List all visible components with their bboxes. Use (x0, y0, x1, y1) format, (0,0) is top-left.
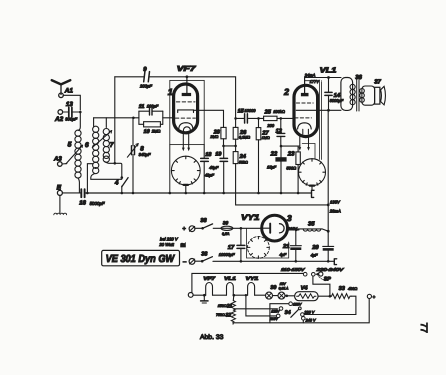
wire shield to chassis (169, 145, 172, 195)
barretter V4 (295, 292, 319, 301)
svg-text:11: 11 (139, 104, 145, 110)
heater VF7 (183, 127, 190, 134)
terminal 220-240V a (312, 273, 316, 277)
wire C12 node to cathode VL1 (280, 145, 300, 148)
resistor R24 (233, 146, 238, 164)
capacitor C21 electrolytic (290, 230, 301, 263)
svg-text:19: 19 (215, 152, 221, 158)
svg-text:23: 23 (287, 150, 295, 157)
wire heater feed to 110-150V terminal (192, 273, 304, 292)
svg-text:200pF: 200pF (139, 83, 152, 88)
svg-text:10: 10 (144, 129, 150, 135)
svg-text:10000: 10000 (244, 108, 256, 113)
anode plate VF7 (178, 110, 194, 113)
svg-text:≅: ≅ (180, 240, 186, 249)
svg-text:18: 18 (205, 152, 211, 158)
svg-text:110-150V: 110-150V (281, 267, 306, 272)
coupling arrow through coils 6-7 (92, 131, 111, 148)
svg-text:6: 6 (85, 142, 89, 149)
selector arm 34 (291, 307, 301, 317)
terminal 150V (289, 302, 293, 306)
lamp 39b (278, 292, 285, 299)
capacitor C12 (277, 118, 285, 146)
shield box around VF7 (170, 80, 204, 144)
terminal 125V (279, 307, 283, 311)
wire V4 to R33 (318, 295, 331, 298)
capacitor C14 (325, 78, 332, 112)
capacitor C19 (220, 147, 227, 194)
svg-text:1: 1 (168, 87, 173, 97)
svg-text:100pF: 100pF (147, 104, 159, 109)
grid dashes VF7 lower (175, 117, 195, 119)
wire lamps (273, 295, 279, 297)
svg-text:16: 16 (79, 200, 86, 207)
wire R28 to node (222, 139, 237, 147)
socket VL1 (299, 159, 326, 186)
wire R24 to HT rail (236, 164, 329, 205)
svg-text:31: 31 (227, 304, 233, 310)
terminal 240V (302, 317, 306, 321)
svg-text:VY1: VY1 (241, 213, 260, 222)
svg-text:3: 3 (287, 213, 292, 223)
fuse F30 (221, 226, 233, 230)
terminal A3 (58, 162, 63, 167)
wire fuse to VY1 (233, 227, 262, 230)
terminal 220-240V b (319, 272, 323, 276)
svg-text:38: 38 (200, 218, 207, 224)
svg-text:340pF: 340pF (139, 152, 151, 157)
lead arrows VL1 to socket (298, 129, 310, 151)
capacitor C22 electrolytic (275, 146, 286, 194)
capacitor C11 (139, 108, 163, 116)
resistor R28 (221, 127, 226, 138)
wire top rail left drop (114, 77, 117, 165)
cathode VL1 (298, 123, 312, 129)
transformer core (357, 79, 359, 111)
resistor R33 (332, 294, 352, 299)
wire top rail (115, 75, 237, 119)
svg-text:39: 39 (270, 285, 276, 291)
svg-text:37: 37 (374, 79, 381, 86)
resistor R32 (231, 310, 235, 324)
svg-text:240 V: 240 V (305, 318, 316, 322)
guide lines VL1 socket (302, 144, 315, 159)
svg-text:38: 38 (201, 252, 208, 258)
svg-text:20 Watt: 20 Watt (158, 242, 174, 247)
node RC left (138, 111, 140, 124)
tube V3 VY1 (262, 215, 288, 241)
terminal 220V (301, 313, 305, 317)
wire VY1 cathode out (288, 229, 300, 232)
grid dashes VF7 upper (176, 101, 195, 103)
grid dashes VL1 lower (control grid) (295, 117, 312, 119)
svg-text:21: 21 (282, 243, 289, 250)
transformer T36 secondary (360, 86, 375, 105)
svg-text:32: 32 (225, 313, 231, 319)
chassis bracket right (312, 190, 315, 197)
svg-text:A3: A3 (53, 155, 62, 162)
wire coil5 bottom to C16 (78, 178, 79, 193)
socket VF7 (171, 156, 200, 185)
svg-text:50kΩ: 50kΩ (239, 160, 248, 164)
svg-text:22: 22 (270, 150, 278, 157)
svg-text:220-240V: 220-240V (315, 267, 345, 272)
mains minus bus (213, 260, 334, 262)
resistor R25 (259, 116, 295, 120)
resistor R35 (297, 229, 330, 233)
svg-text:1MΩ: 1MΩ (262, 136, 270, 140)
svg-text:33: 33 (339, 286, 346, 292)
wire R33 to 220V tap (304, 296, 356, 314)
svg-text:VF7: VF7 (203, 276, 215, 282)
svg-text:E: E (57, 184, 62, 191)
svg-text:45pF: 45pF (209, 165, 219, 170)
svg-text:VF7: VF7 (177, 64, 197, 73)
wire A3 tap arrow onto coil 5 (62, 145, 83, 164)
terminal E (57, 190, 62, 195)
grid top-cap of VF7 (182, 77, 191, 96)
wire RC to VF7 grid (163, 117, 174, 119)
HT vertical 195V (327, 110, 330, 231)
svg-text:750Ω: 750Ω (216, 313, 225, 317)
wire coil6 bottom to switch (91, 174, 122, 180)
tube V2 VL1 envelope (294, 85, 318, 136)
transformer T36 primary (341, 78, 355, 111)
svg-text:bei 220 V: bei 220 V (160, 237, 179, 242)
wire grid VL1 from R25 node (293, 117, 295, 119)
wire 110V tap (245, 294, 277, 316)
VY1 socket mounting box (247, 229, 289, 258)
svg-text:VE 301 Dyn GW: VE 301 Dyn GW (106, 254, 176, 265)
wire socket VL1 to chassis bracket (311, 186, 313, 191)
svg-text:12: 12 (276, 129, 283, 135)
bottom selector wire to plus terminal (233, 299, 370, 323)
wire coil7 bottom to switch 4 (105, 162, 122, 178)
capacitor C16 (62, 189, 84, 197)
svg-text:25: 25 (264, 110, 272, 116)
heater VL1 loop (227, 283, 234, 296)
svg-text:400Ω: 400Ω (348, 287, 357, 291)
wire 220V input down to V4 node (313, 276, 330, 295)
svg-text:500Ω: 500Ω (286, 165, 296, 170)
svg-text:100kΩ: 100kΩ (273, 109, 285, 114)
grid dashes VL1 upper (296, 102, 313, 104)
svg-text:29mA: 29mA (329, 209, 341, 214)
lead arrows VF7 to socket (182, 134, 190, 152)
coil L6 (93, 118, 99, 174)
socket VY1 (248, 237, 270, 259)
heater VY1 loop (248, 283, 255, 296)
terminal A1 (59, 93, 64, 98)
svg-text:+: + (182, 227, 186, 233)
svg-text:4: 4 (114, 180, 119, 187)
svg-text:150V: 150V (293, 303, 302, 307)
svg-text:SP: SP (324, 276, 332, 282)
switch S38a (195, 224, 221, 230)
svg-text:110V: 110V (270, 317, 279, 321)
resistor R31 (231, 294, 235, 310)
svg-text:125V: 125V (271, 310, 280, 314)
svg-text:VY1: VY1 (246, 276, 259, 282)
svg-text:20: 20 (311, 244, 319, 251)
svg-text:V4: V4 (301, 285, 309, 291)
svg-text:24: 24 (239, 154, 247, 160)
svg-text:17: 17 (228, 245, 235, 251)
capacitor C9 (144, 72, 150, 82)
wire socket VF7 to chassis (185, 185, 188, 194)
chassis bracket bottom (334, 259, 336, 265)
capacitor C17 (237, 228, 245, 262)
wire anode VL1 to transformer (305, 76, 341, 79)
svg-text:VL1: VL1 (224, 276, 236, 282)
heater terminal (188, 293, 193, 298)
svg-text:0,5A: 0,5A (222, 232, 230, 236)
svg-text:2: 2 (283, 87, 289, 97)
terminal plug plus (189, 226, 195, 232)
speaker 37 (375, 86, 386, 105)
capacitor C8 variable (127, 118, 138, 193)
wire 125V tap (234, 308, 277, 310)
cathode VF7 (179, 123, 193, 129)
heater VF7 loop (206, 283, 213, 296)
resistor R26 (233, 118, 238, 145)
svg-text:30: 30 (223, 221, 229, 227)
anode top-cap VL1 (301, 78, 309, 97)
svg-text:13: 13 (66, 101, 73, 108)
svg-text:−: − (183, 259, 187, 266)
wire coil tops bus y117.7 (94, 117, 139, 120)
terminal plug minus (189, 259, 195, 265)
svg-text:34: 34 (285, 310, 291, 316)
heater wire (193, 294, 265, 296)
svg-text:VL1: VL1 (320, 66, 337, 75)
wire VF7 anode out (194, 110, 224, 127)
capacitor C13 (69, 107, 72, 116)
svg-text:150Ω: 150Ω (218, 304, 227, 308)
svg-text:220 V: 220 V (303, 310, 314, 314)
wire coil6 tap to chassis (87, 164, 92, 193)
wire 240V to bottom (302, 320, 304, 323)
svg-text:195V: 195V (330, 200, 341, 205)
node RC right (162, 111, 164, 124)
resistor R23 (296, 146, 300, 194)
wire lamp to V4 (285, 295, 295, 298)
svg-text:0,3MΩ: 0,3MΩ (239, 136, 250, 140)
svg-text:5: 5 (68, 142, 72, 149)
svg-text:10000μF: 10000μF (219, 252, 235, 257)
terminal heater plus (367, 294, 371, 298)
svg-text:177V: 177V (310, 79, 320, 84)
svg-text:5000pF: 5000pF (330, 98, 344, 103)
screen line VL1 (296, 109, 341, 111)
wire A2 to C13 to junction (63, 111, 82, 131)
capacitor C20 electrolytic (323, 231, 334, 262)
svg-text:4μF: 4μF (311, 253, 318, 258)
svg-text:2MΩ: 2MΩ (151, 129, 161, 134)
svg-text:200: 200 (266, 123, 274, 128)
svg-text:Abb. 33: Abb. 33 (200, 334, 224, 341)
svg-text:300pF: 300pF (65, 117, 77, 122)
capacitor C18 (201, 145, 209, 195)
switch S4 (121, 176, 129, 193)
svg-text:5000pF: 5000pF (90, 201, 105, 206)
terminal A2 (58, 110, 63, 115)
svg-text:24mA: 24mA (304, 72, 316, 77)
svg-text:+: + (373, 294, 376, 299)
tube V1 VF7 envelope (174, 84, 198, 133)
label SP (319, 276, 332, 282)
plug arrow (315, 272, 318, 276)
lamp 39a (266, 292, 273, 299)
svg-text:77: 77 (419, 323, 429, 333)
terminal 110-150V (303, 272, 307, 276)
svg-text:2MΩ: 2MΩ (209, 135, 218, 139)
svg-text:42pF: 42pF (205, 172, 215, 177)
svg-text:35: 35 (308, 221, 315, 228)
svg-text:A2: A2 (54, 116, 64, 123)
terminal 110V (276, 314, 280, 318)
svg-text:A1: A1 (64, 87, 74, 94)
wire 150V tap (270, 304, 289, 323)
resistor R27 (256, 117, 261, 194)
switch S38b (195, 257, 213, 263)
svg-text:4μF: 4μF (279, 252, 286, 257)
resistor R10 (139, 122, 163, 127)
wire A1 to junction (63, 95, 80, 110)
nameplate box VE 301 Dyn GW (102, 250, 180, 265)
capacitor C15 (236, 114, 259, 123)
side wires VL1 to socket (305, 81, 322, 160)
coil L5 (75, 130, 81, 178)
svg-text:0,05 A: 0,05 A (279, 286, 289, 290)
chassis bus (85, 192, 312, 195)
coil L7 (103, 118, 109, 162)
svg-text:15V: 15V (280, 282, 287, 286)
antenna (52, 80, 70, 94)
chassis ground on heater (201, 294, 208, 303)
svg-text:15μF: 15μF (267, 165, 277, 170)
ground below E (54, 195, 67, 214)
